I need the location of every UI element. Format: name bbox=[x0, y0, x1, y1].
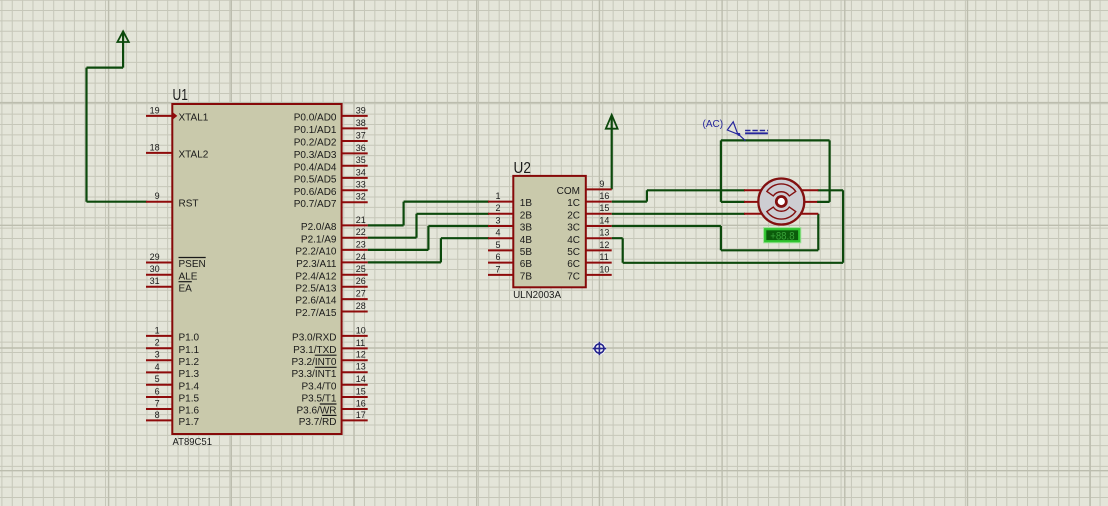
svg-text:15: 15 bbox=[356, 386, 366, 396]
svg-text:U1: U1 bbox=[173, 87, 188, 104]
svg-text:P1.2: P1.2 bbox=[179, 357, 200, 368]
svg-text:24: 24 bbox=[356, 252, 366, 262]
svg-text:12: 12 bbox=[599, 240, 609, 250]
svg-text:P2.5/A13: P2.5/A13 bbox=[295, 283, 337, 294]
svg-text:P0.1/AD1: P0.1/AD1 bbox=[294, 125, 337, 136]
svg-text:1C: 1C bbox=[567, 198, 580, 209]
svg-text:1: 1 bbox=[495, 191, 500, 201]
svg-text:PSEN: PSEN bbox=[179, 259, 206, 270]
svg-text:P1.7: P1.7 bbox=[179, 417, 200, 428]
svg-text:18: 18 bbox=[150, 142, 160, 152]
svg-text:8: 8 bbox=[155, 410, 160, 420]
svg-text:10: 10 bbox=[356, 325, 366, 335]
svg-text:6: 6 bbox=[495, 252, 500, 262]
svg-text:1: 1 bbox=[155, 325, 160, 335]
svg-text:4C: 4C bbox=[567, 235, 580, 246]
svg-text:33: 33 bbox=[356, 180, 366, 190]
svg-text:23: 23 bbox=[356, 239, 366, 249]
svg-text:P1.6: P1.6 bbox=[179, 406, 200, 417]
svg-text:11: 11 bbox=[599, 252, 608, 262]
svg-text:P2.2/A10: P2.2/A10 bbox=[295, 247, 337, 258]
svg-text:P0.2/AD2: P0.2/AD2 bbox=[294, 138, 337, 149]
svg-text:22: 22 bbox=[356, 227, 366, 237]
svg-text:19: 19 bbox=[150, 105, 160, 115]
svg-text:P1.5: P1.5 bbox=[179, 394, 200, 405]
svg-text:XTAL2: XTAL2 bbox=[179, 150, 209, 161]
svg-text:9: 9 bbox=[155, 191, 160, 201]
svg-text:7: 7 bbox=[495, 264, 500, 274]
svg-text:14: 14 bbox=[356, 374, 366, 384]
svg-text:P0.7/AD7: P0.7/AD7 bbox=[294, 199, 337, 210]
svg-text:16: 16 bbox=[599, 191, 609, 201]
svg-text:2B: 2B bbox=[520, 210, 533, 221]
svg-text:11: 11 bbox=[356, 338, 365, 348]
svg-text:13: 13 bbox=[356, 362, 366, 372]
svg-text:P3.7/RD: P3.7/RD bbox=[299, 417, 337, 428]
svg-text:37: 37 bbox=[356, 130, 366, 140]
svg-text:P2.1/A9: P2.1/A9 bbox=[301, 234, 337, 245]
svg-text:P2.4/A12: P2.4/A12 bbox=[295, 271, 337, 282]
svg-text:10: 10 bbox=[599, 264, 609, 274]
svg-text:P0.5/AD5: P0.5/AD5 bbox=[294, 175, 337, 186]
svg-text:3: 3 bbox=[155, 350, 160, 360]
svg-text:9: 9 bbox=[599, 179, 604, 189]
svg-text:4: 4 bbox=[495, 228, 500, 238]
svg-text:26: 26 bbox=[356, 276, 366, 286]
svg-text:4B: 4B bbox=[520, 235, 533, 246]
svg-text:5B: 5B bbox=[520, 247, 533, 258]
svg-text:COM: COM bbox=[557, 186, 580, 197]
svg-text:P1.0: P1.0 bbox=[179, 333, 200, 344]
svg-text:P1.4: P1.4 bbox=[179, 381, 200, 392]
svg-text:27: 27 bbox=[356, 289, 366, 299]
svg-text:31: 31 bbox=[150, 276, 160, 286]
svg-text:P3.1/TXD: P3.1/TXD bbox=[293, 345, 336, 356]
svg-text:21: 21 bbox=[356, 215, 366, 225]
svg-text:6B: 6B bbox=[520, 259, 533, 270]
svg-text:P2.3/A11: P2.3/A11 bbox=[296, 259, 337, 270]
svg-text:34: 34 bbox=[356, 167, 366, 177]
svg-text:15: 15 bbox=[599, 203, 609, 213]
svg-text:38: 38 bbox=[356, 118, 366, 128]
svg-text:P1.3: P1.3 bbox=[179, 369, 200, 380]
svg-text:12: 12 bbox=[356, 350, 366, 360]
svg-text:13: 13 bbox=[599, 228, 609, 238]
svg-text:P3.5/T1: P3.5/T1 bbox=[301, 394, 336, 405]
svg-text:7B: 7B bbox=[520, 272, 533, 283]
svg-text:+88.8: +88.8 bbox=[770, 231, 794, 243]
svg-text:ALE: ALE bbox=[179, 271, 198, 282]
svg-text:(AC): (AC) bbox=[703, 119, 724, 130]
svg-text:25: 25 bbox=[356, 264, 366, 274]
svg-text:5C: 5C bbox=[567, 247, 580, 258]
svg-text:P3.2/INT0: P3.2/INT0 bbox=[291, 357, 336, 368]
svg-text:17: 17 bbox=[356, 410, 366, 420]
svg-text:P1.1: P1.1 bbox=[179, 345, 200, 356]
svg-text:P0.6/AD6: P0.6/AD6 bbox=[294, 187, 337, 198]
svg-text:P0.0/AD0: P0.0/AD0 bbox=[294, 113, 337, 124]
svg-text:2: 2 bbox=[155, 338, 160, 348]
svg-text:U2: U2 bbox=[514, 160, 531, 177]
svg-text:RST: RST bbox=[179, 198, 199, 209]
svg-text:29: 29 bbox=[150, 252, 160, 262]
svg-text:4: 4 bbox=[155, 362, 160, 372]
svg-text:XTAL1: XTAL1 bbox=[179, 113, 209, 124]
svg-text:P3.0/RXD: P3.0/RXD bbox=[292, 333, 336, 344]
svg-text:6C: 6C bbox=[567, 259, 580, 270]
svg-text:P2.0/A8: P2.0/A8 bbox=[301, 222, 337, 233]
svg-text:P2.6/A14: P2.6/A14 bbox=[295, 296, 337, 307]
svg-text:P3.3/INT1: P3.3/INT1 bbox=[291, 369, 336, 380]
svg-text:1B: 1B bbox=[520, 198, 533, 209]
svg-text:2: 2 bbox=[495, 203, 500, 213]
svg-text:3B: 3B bbox=[520, 223, 533, 234]
svg-text:35: 35 bbox=[356, 155, 366, 165]
svg-text:EA: EA bbox=[179, 283, 193, 294]
svg-text:39: 39 bbox=[356, 105, 366, 115]
svg-text:P0.3/AD3: P0.3/AD3 bbox=[294, 150, 337, 161]
svg-text:3C: 3C bbox=[567, 223, 580, 234]
svg-text:6: 6 bbox=[155, 386, 160, 396]
svg-text:P3.4/T0: P3.4/T0 bbox=[301, 381, 336, 392]
svg-text:14: 14 bbox=[599, 215, 609, 225]
svg-text:ULN2003A: ULN2003A bbox=[513, 289, 561, 301]
svg-text:30: 30 bbox=[150, 264, 160, 274]
svg-text:5: 5 bbox=[155, 374, 160, 384]
svg-text:7: 7 bbox=[155, 398, 160, 408]
svg-text:P2.7/A15: P2.7/A15 bbox=[295, 308, 337, 319]
svg-text:7C: 7C bbox=[567, 272, 580, 283]
svg-text:P0.4/AD4: P0.4/AD4 bbox=[294, 162, 337, 173]
svg-text:5: 5 bbox=[495, 240, 500, 250]
svg-text:32: 32 bbox=[356, 192, 366, 202]
svg-text:3: 3 bbox=[495, 215, 500, 225]
svg-text:16: 16 bbox=[356, 398, 366, 408]
svg-text:36: 36 bbox=[356, 143, 366, 153]
svg-text:2C: 2C bbox=[567, 210, 580, 221]
svg-text:28: 28 bbox=[356, 301, 366, 311]
svg-text:AT89C51: AT89C51 bbox=[173, 436, 213, 448]
